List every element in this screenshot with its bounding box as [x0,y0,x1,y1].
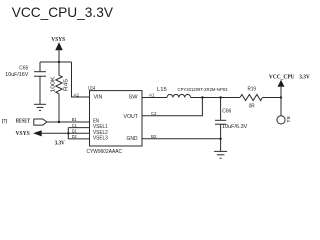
svg-text:D1: D1 [72,129,77,134]
svg-text:R19: R19 [248,87,257,93]
svg-text:D2: D2 [72,134,77,139]
svg-text:CPY201209T-2R2M-NP03: CPY201209T-2R2M-NP03 [178,87,228,93]
off-page connector [7] RESET [2,118,47,125]
wire inductor to R19 [191,97,240,99]
wire VSEL3 [68,138,89,140]
svg-text:10uF/6.3V: 10uF/6.3V [222,124,248,130]
power symbol VCC_CPU 3.3V [269,73,310,97]
svg-text:RESET: RESET [16,118,30,124]
wire VSEL strap [67,128,69,139]
junction dot VOUT riser [201,96,203,98]
svg-text:B1: B1 [72,117,77,122]
svg-text:VCC_CPU: VCC_CPU [269,73,295,80]
svg-text:C66: C66 [222,108,231,114]
svg-text:A1: A1 [149,93,155,98]
wire VOUT loop [142,98,202,116]
junction dot EN/R45 [58,121,60,123]
wire RESET to EN [47,121,90,123]
svg-text:3.3V: 3.3V [55,140,66,146]
capacitor C66 [215,98,226,152]
test point T8 [277,98,291,125]
junction dot VSEL2 [67,132,69,134]
resistor R19 0R [240,95,263,101]
inductor L15 [167,94,191,97]
svg-text:100K: 100K [50,76,56,93]
svg-text:C65: C65 [19,66,28,72]
junction dot GND/C66 [219,138,221,140]
wire VSYS to VSEL2 [42,132,90,134]
power symbol VSYS (top) [51,36,65,62]
svg-text:L15: L15 [157,87,167,93]
svg-text:R45: R45 [63,79,69,91]
svg-text:VSYS: VSYS [16,130,31,137]
svg-text:C1: C1 [72,123,77,128]
resistor R45 100K [56,62,62,122]
junction dot output node [280,96,282,98]
capacitor C65 [34,62,46,104]
wire R19 to output node [263,97,282,99]
ground under C65 [34,104,46,110]
svg-text:U14: U14 [88,86,95,92]
power symbol VSYS (left arrow) [16,130,42,137]
IC U14 body [90,91,143,146]
wire SW to inductor [142,97,167,99]
svg-text:3.3V: 3.3V [299,73,310,80]
svg-text:VSEL3: VSEL3 [93,135,108,141]
wire top bus [40,61,72,63]
svg-text:T8: T8 [286,116,291,123]
svg-text:[7]: [7] [2,118,7,124]
svg-text:CYW9602AAAC: CYW9602AAAC [87,149,123,155]
svg-text:VOUT: VOUT [124,114,139,120]
ground under C66 [214,151,227,158]
svg-text:VSYS: VSYS [51,36,65,43]
value label C65 10uF/16V [5,66,29,78]
svg-text:A2: A2 [74,93,80,98]
svg-text:10uF/16V: 10uF/16V [5,72,29,78]
svg-text:VIN: VIN [94,95,103,101]
svg-text:B2: B2 [151,134,157,139]
svg-text:0R: 0R [249,103,255,109]
wire GND pin [142,138,221,140]
wire VIN drop [72,62,90,97]
svg-text:C2: C2 [151,111,157,116]
svg-text:VCC_CPU_3.3V: VCC_CPU_3.3V [12,4,114,20]
svg-text:SW: SW [129,95,138,101]
junction dot C66 top [219,96,221,98]
wire VSEL1 [68,127,89,129]
svg-text:GND: GND [127,136,138,142]
junction dot VSYS bus [58,61,60,63]
